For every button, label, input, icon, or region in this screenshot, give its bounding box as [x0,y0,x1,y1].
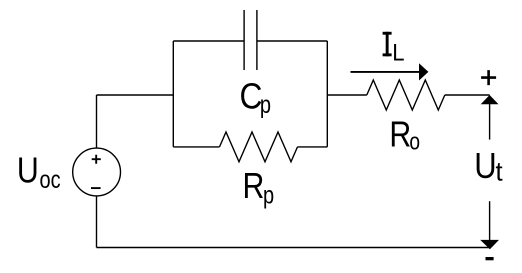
arrowhead up at + terminal [481,95,499,104]
label Rp [243,166,275,208]
minus sign in source [91,187,101,189]
svg-text:C: C [240,76,263,117]
svg-text:p: p [260,91,271,119]
label Uoc [17,151,61,194]
label IL [383,32,405,66]
svg-text:oc: oc [40,166,61,194]
svg-text:o: o [409,127,420,155]
svg-text:t: t [496,156,504,187]
resistor Rp [220,132,298,162]
plus sign terminal [481,70,496,85]
svg-text:U: U [474,146,496,187]
svg-text:L: L [392,39,404,66]
voltage source Uoc [73,148,121,196]
wire [298,146,328,148]
wire [97,247,490,249]
wire [173,40,327,42]
wire [96,95,98,148]
wire [445,94,490,96]
wire [327,94,367,96]
resistor Ro [367,80,445,110]
minus sign terminal [486,257,494,260]
arrowhead down at - terminal [480,240,499,249]
wire [173,146,219,148]
wire [172,41,174,147]
current arrow IL [351,63,429,80]
svg-text:R: R [389,115,411,155]
label Cp [240,76,272,118]
label Ut [474,146,503,187]
wire [326,41,328,147]
wire [489,201,491,240]
capacitor Cp [244,10,257,70]
plus sign in source [92,155,101,164]
label Ro [389,115,420,155]
svg-text:p: p [263,181,274,209]
wire [96,196,98,248]
wire [489,104,491,140]
svg-text:R: R [243,166,265,206]
wire [97,94,174,96]
svg-text:U: U [17,151,39,191]
